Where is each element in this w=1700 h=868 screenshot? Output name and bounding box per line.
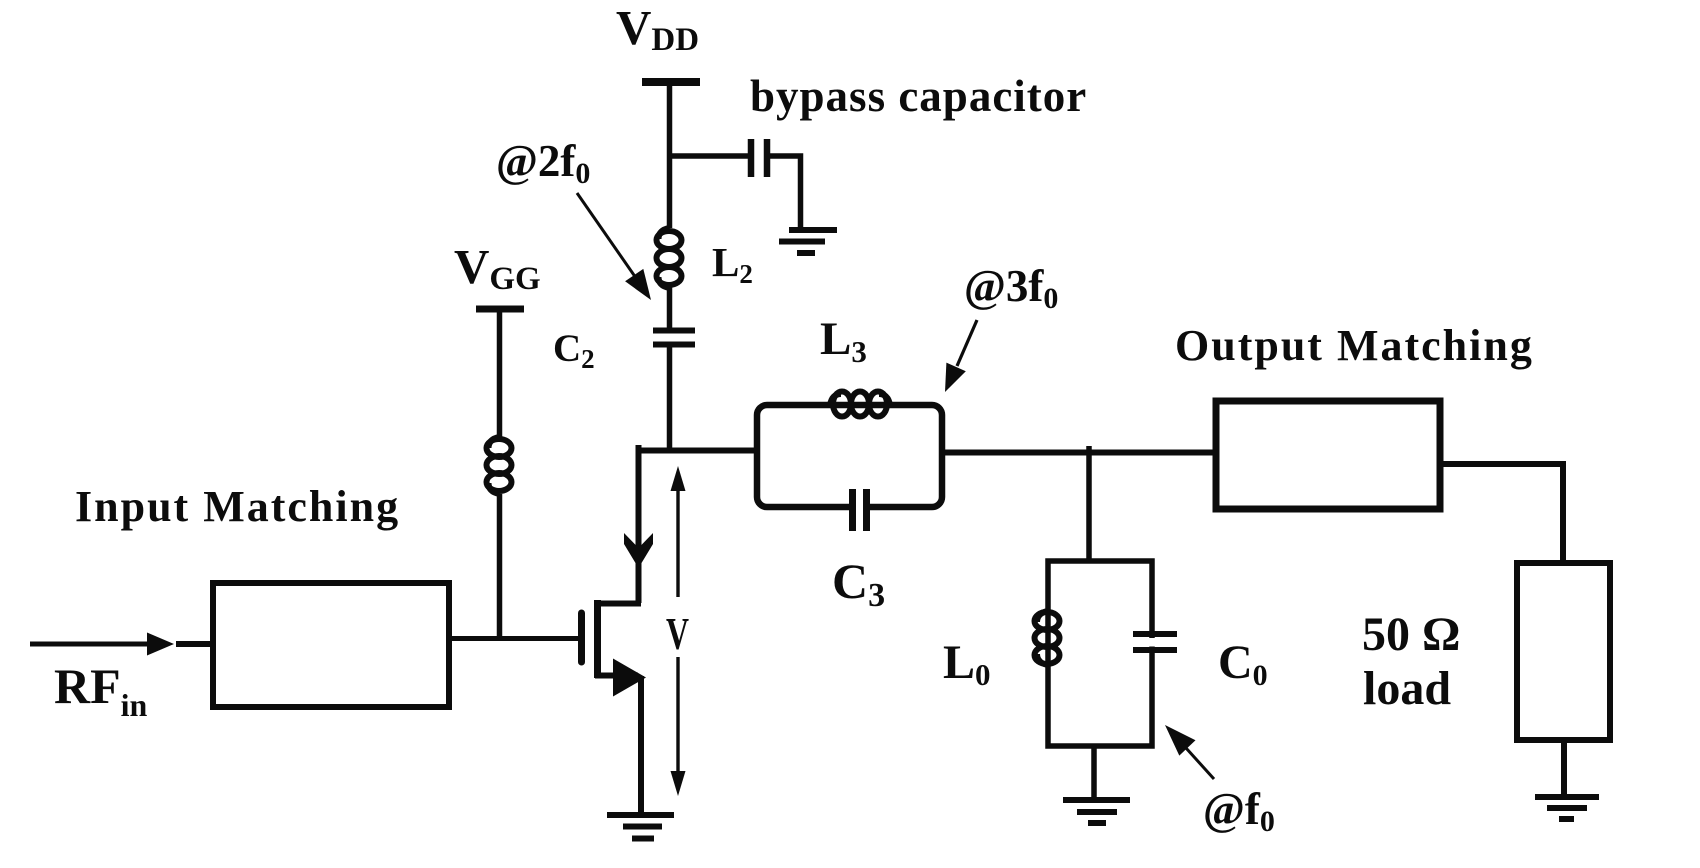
inductor L3	[830, 392, 890, 417]
wire drain up to node	[636, 445, 642, 603]
gap for C3	[856, 497, 864, 517]
input matching network box	[213, 583, 449, 707]
voltage annotation arrow up	[671, 466, 686, 597]
annotation arrow @2f0 to L2-C2 node	[577, 193, 651, 300]
input signal arrow	[30, 633, 174, 656]
wire node down to L0C0 tank	[1086, 446, 1092, 562]
source arrow	[613, 659, 646, 697]
svg-text:bypass capacitor: bypass capacitor	[750, 71, 1087, 121]
wire L2 to C2	[667, 286, 673, 328]
wire VDD to L2	[667, 82, 673, 228]
ground L0C0	[1063, 800, 1130, 823]
wire tank to output matching	[942, 450, 1216, 456]
capacitor C3	[853, 489, 867, 531]
drain current arrow	[624, 533, 653, 568]
voltage annotation arrow down	[671, 657, 686, 796]
inductor L2	[657, 228, 682, 288]
power supply VDD bar	[642, 78, 700, 86]
transistor M1 drain arm	[595, 601, 641, 607]
wire input matching box to gate	[449, 636, 580, 641]
annotation arrow @3f0 to tank	[945, 320, 977, 392]
transistor M1 gate bar	[578, 613, 585, 662]
transistor M1 source arm	[595, 673, 638, 679]
ground load	[1535, 797, 1599, 819]
wire output matching to load	[1440, 464, 1563, 563]
wire L0C0 tank to ground	[1091, 746, 1097, 800]
svg-text:50 Ω: 50 Ω	[1362, 608, 1460, 661]
load resistor box	[1517, 563, 1610, 740]
annotation arrow @f0 to tank	[1165, 725, 1214, 779]
capacitor bypass	[751, 139, 767, 177]
output matching network box	[1216, 401, 1440, 509]
svg-text:Output Matching: Output Matching	[1175, 321, 1534, 370]
wire VDD to bypass capacitor	[670, 153, 749, 159]
transistor M1 channel bar	[594, 600, 601, 678]
gap for C0	[1144, 638, 1160, 647]
resonator tank L3 C3 loop	[757, 405, 942, 507]
wire VGG to gate inductor	[497, 309, 503, 438]
svg-text:load: load	[1363, 662, 1451, 715]
resonator tank L0 C0 loop	[1048, 561, 1152, 746]
power supply VGG bar	[476, 306, 524, 313]
wire choke to gate node	[497, 494, 503, 640]
svg-text:Input Matching: Input Matching	[75, 482, 400, 531]
wire bypass capacitor to ground	[770, 156, 801, 228]
wire drain node to L3C3 tank	[636, 448, 759, 454]
svg-text:V: V	[666, 608, 689, 659]
capacitor C0	[1133, 634, 1177, 650]
wire C2 to drain node	[667, 347, 673, 452]
capacitor C2	[653, 331, 695, 345]
wire load to ground	[1561, 740, 1567, 797]
wire source to ground	[638, 676, 644, 814]
ground bypass	[779, 230, 837, 253]
ground source	[607, 815, 674, 839]
wire input arrow to input matching box	[176, 641, 213, 647]
inductor gate bias choke	[487, 437, 512, 494]
inductor L0	[1035, 611, 1060, 665]
